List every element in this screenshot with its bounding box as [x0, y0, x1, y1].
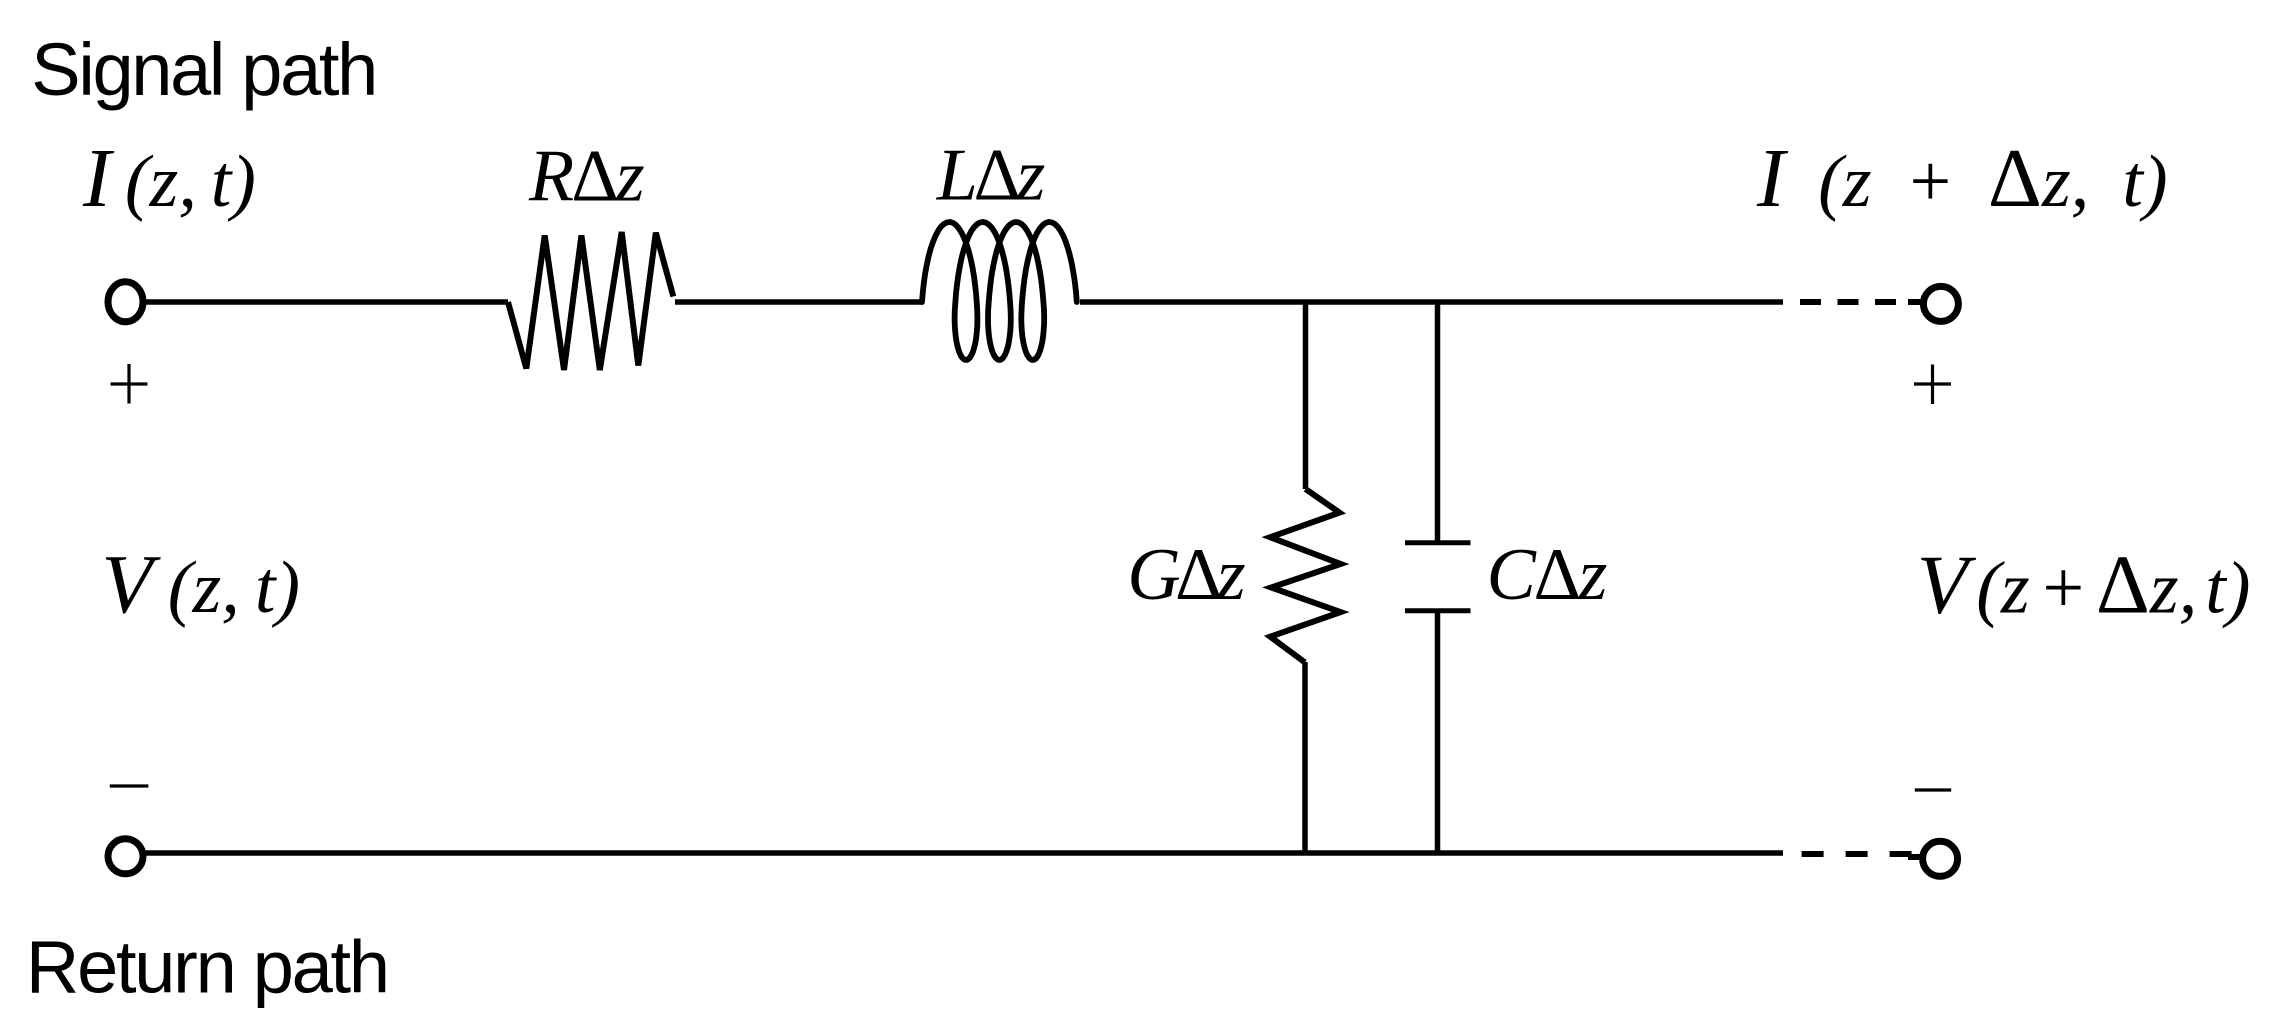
terminal circle top-left: [108, 282, 143, 322]
svg-text:CΔz: CΔz: [1487, 534, 1607, 616]
wire shunt G branch upper: [1303, 300, 1309, 489]
terminal circle bottom-right: [1923, 841, 1958, 876]
svg-text:V (z + Δz, t): V (z + Δz, t): [1917, 539, 2251, 632]
svg-text:LΔz: LΔz: [936, 135, 1045, 217]
wire bottom (return): [145, 850, 1783, 856]
svg-text:GΔz: GΔz: [1127, 534, 1245, 616]
capacitor C1 plate bottom: [1405, 608, 1471, 613]
resistor R1 zigzag: [508, 232, 673, 370]
wire from L to dashed section: [1080, 299, 1783, 305]
svg-text:I (z, t): I (z, t): [82, 132, 256, 225]
inductor L1 coil: [922, 222, 1077, 360]
wire shunt G branch lower: [1302, 662, 1308, 855]
svg-text:I (z + Δz, t): I (z + Δz, t): [1756, 132, 2168, 225]
wire between R and L: [675, 299, 923, 305]
svg-text:Signal path: Signal path: [31, 28, 378, 111]
wire stub to top-right terminal: [1908, 299, 1921, 305]
minus sign left: [110, 784, 149, 787]
plus sign right: [1914, 365, 1951, 405]
terminal circle bottom-left: [108, 839, 143, 874]
terminal circle top-right: [1923, 286, 1958, 321]
plus sign left: [111, 364, 148, 404]
svg-text:V (z, t): V (z, t): [101, 538, 300, 631]
svg-text:Return path: Return path: [26, 926, 390, 1009]
resistor G1 zigzag: [1270, 489, 1340, 662]
dashed wire top: [1800, 299, 1912, 305]
svg-text:RΔz: RΔz: [528, 136, 644, 218]
wire top-left segment: [143, 299, 508, 305]
minus sign right: [1915, 788, 1951, 791]
wire stub to bottom-right terminal: [1908, 854, 1921, 860]
capacitor C1 plate top: [1405, 540, 1471, 545]
wire shunt C branch lower: [1435, 611, 1441, 855]
wire shunt C branch upper: [1435, 300, 1441, 543]
dashed wire bottom: [1802, 851, 1913, 857]
